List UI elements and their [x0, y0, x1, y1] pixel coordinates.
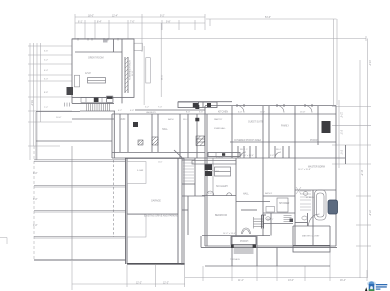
- svg-text:PORCH: PORCH: [240, 241, 249, 243]
- svg-text:3'-6": 3'-6": [44, 51, 48, 53]
- svg-text:6'-8": 6'-8": [130, 110, 134, 112]
- svg-text:7'-4": 7'-4": [158, 107, 162, 109]
- svg-text:KITCHEN: KITCHEN: [210, 171, 220, 173]
- svg-text:12'-4": 12'-4": [112, 16, 118, 18]
- svg-text:9'-2": 9'-2": [340, 130, 342, 135]
- svg-text:11'-2": 11'-2": [260, 112, 265, 114]
- svg-text:W.I.C. 2: W.I.C. 2: [240, 149, 248, 151]
- svg-text:8'-8": 8'-8": [44, 92, 48, 94]
- svg-text:9'-0": 9'-0": [33, 225, 38, 227]
- svg-text:FAMILY: FAMILY: [281, 125, 289, 128]
- svg-text:3-CAR: 3-CAR: [137, 169, 144, 172]
- svg-text:W.I.C. 3: W.I.C. 3: [276, 149, 284, 151]
- svg-text:7'-0": 7'-0": [130, 22, 135, 24]
- svg-text:GARAGE: GARAGE: [151, 200, 161, 203]
- svg-text:21'-8": 21'-8": [360, 170, 362, 176]
- svg-text:KITCHEN: KITCHEN: [218, 112, 228, 114]
- svg-text:9'-2": 9'-2": [160, 16, 165, 18]
- svg-text:8'-0": 8'-0": [340, 150, 342, 155]
- svg-text:12'x9': 12'x9': [85, 73, 91, 75]
- svg-text:3'-0": 3'-0": [44, 79, 48, 81]
- svg-text:BEDROOM: BEDROOM: [215, 215, 227, 217]
- svg-text:9'-6": 9'-6": [270, 155, 274, 157]
- svg-text:9'-0": 9'-0": [33, 173, 38, 175]
- svg-text:6'-0": 6'-0": [238, 112, 242, 114]
- svg-text:GUEST SUITE: GUEST SUITE: [248, 122, 264, 124]
- svg-text:5'-2": 5'-2": [44, 60, 48, 62]
- svg-text:GREAT ROOM: GREAT ROOM: [88, 57, 104, 60]
- svg-text:MASTER CLOSET: MASTER CLOSET: [302, 235, 320, 238]
- svg-text:13'-8": 13'-8": [300, 112, 306, 114]
- svg-text:16'-2" x 15'-8": 16'-2" x 15'-8": [298, 169, 311, 171]
- svg-text:10'-6": 10'-6": [56, 117, 62, 119]
- svg-text:14'-2" x 13'-0": 14'-2" x 13'-0": [223, 233, 236, 235]
- svg-text:PANTRY: PANTRY: [214, 118, 223, 121]
- svg-text:11'-0": 11'-0": [158, 162, 163, 164]
- svg-text:TERRACE: TERRACE: [230, 258, 241, 261]
- svg-text:LAUNDRY: LAUNDRY: [146, 111, 157, 114]
- svg-text:11'-2": 11'-2": [238, 280, 244, 282]
- svg-text:COVERED PORCH AREA: COVERED PORCH AREA: [234, 139, 262, 142]
- svg-text:PORCH: PORCH: [310, 140, 319, 142]
- svg-text:8'-0": 8'-0": [186, 112, 190, 114]
- svg-text:12'-10" x 13'-4": 12'-10" x 13'-4": [240, 155, 254, 157]
- svg-text:13'-0": 13'-0": [288, 280, 294, 282]
- svg-text:7'-2": 7'-2": [44, 107, 48, 109]
- svg-text:12'-2": 12'-2": [136, 283, 142, 285]
- svg-text:8'-4": 8'-4": [97, 22, 102, 24]
- svg-text:9'-8": 9'-8": [166, 22, 171, 24]
- svg-text:9'-0": 9'-0": [33, 199, 38, 201]
- svg-text:5'-8": 5'-8": [208, 193, 212, 195]
- svg-text:34'-0": 34'-0": [30, 100, 32, 106]
- svg-text:HALL: HALL: [243, 193, 249, 196]
- svg-text:M. BATH: M. BATH: [306, 196, 315, 199]
- svg-text:BUTLER: BUTLER: [216, 158, 224, 160]
- svg-text:4'-2": 4'-2": [118, 110, 122, 112]
- svg-text:38'-6": 38'-6": [162, 74, 164, 80]
- svg-text:54'-6": 54'-6": [265, 17, 271, 19]
- svg-text:12'-2": 12'-2": [163, 283, 169, 285]
- svg-text:6'-1": 6'-1": [78, 22, 83, 24]
- svg-text:6'-4": 6'-4": [44, 70, 48, 72]
- svg-text:14'-0": 14'-0": [368, 60, 370, 66]
- svg-text:12'-0": 12'-0": [132, 70, 134, 76]
- svg-text:SCULLERY: SCULLERY: [216, 186, 229, 188]
- svg-text:5'-2": 5'-2": [145, 107, 149, 109]
- svg-text:W.I.C.: W.I.C.: [183, 119, 189, 121]
- svg-text:EXISTING DRIVE AND PARKING: EXISTING DRIVE AND PARKING: [144, 215, 179, 218]
- svg-text:12'-6": 12'-6": [340, 112, 342, 118]
- svg-text:HALL: HALL: [162, 128, 168, 131]
- svg-text:BATH 2: BATH 2: [265, 192, 273, 195]
- svg-text:3'-6": 3'-6": [199, 112, 203, 114]
- svg-text:18'-4": 18'-4": [368, 210, 370, 216]
- svg-text:MUD: MUD: [120, 119, 126, 121]
- svg-text:16'-4": 16'-4": [340, 280, 346, 282]
- svg-text:BATH: BATH: [168, 118, 174, 121]
- svg-text:18'-0": 18'-0": [88, 16, 94, 18]
- svg-text:STAIR HALL: STAIR HALL: [214, 127, 227, 130]
